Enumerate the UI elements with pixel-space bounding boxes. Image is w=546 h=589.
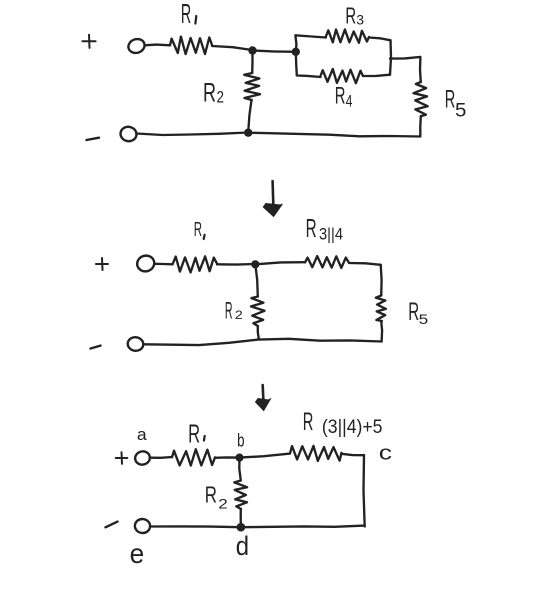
svg-text:2: 2 (217, 88, 225, 107)
label R3||4 (306, 213, 343, 244)
resistor R2 (middle circuit) (251, 297, 265, 327)
node junction at parallel box (top) (292, 48, 300, 56)
svg-text:R: R (205, 481, 217, 507)
node junction d (237, 523, 246, 532)
svg-text:R: R (188, 419, 200, 449)
terminal + input (bottom circuit) (134, 450, 151, 466)
resistor R3||4 (305, 256, 349, 268)
plus sign (bottom circuit input) (116, 452, 128, 464)
node label d (236, 531, 249, 561)
label R2 (bottom) (205, 481, 228, 511)
label R(3||4)+5 (303, 408, 383, 438)
label R4 (335, 83, 353, 111)
wire (364, 455, 365, 526)
svg-text:2: 2 (235, 308, 243, 322)
wire (150, 525, 241, 528)
svg-text:R: R (303, 408, 314, 436)
svg-text:R: R (408, 298, 419, 326)
wire (248, 133, 420, 137)
wire (419, 116, 422, 137)
wire (239, 458, 241, 481)
wire (258, 326, 259, 339)
label R1 (top) (181, 0, 196, 29)
wire (253, 51, 296, 52)
wire (240, 454, 291, 458)
resistor R1 (middle circuit) (173, 256, 218, 272)
minus sign (top circuit input) (87, 138, 100, 140)
wire (240, 509, 243, 527)
node junction R2 bottom (top) (244, 129, 252, 137)
terminal - input (bottom circuit) (134, 518, 151, 534)
wire (255, 264, 257, 296)
svg-text:R: R (345, 3, 356, 29)
wire (390, 40, 391, 74)
svg-text:b: b (237, 430, 244, 450)
svg-text:R: R (335, 83, 346, 110)
wire (390, 57, 421, 82)
label R2 (top) (203, 78, 224, 108)
resistor R1 (bottom circuit) (172, 449, 215, 465)
wire (380, 321, 383, 342)
label R5 (top) (445, 86, 467, 122)
svg-text:R: R (445, 86, 456, 114)
svg-text:a: a (137, 425, 147, 444)
wire (255, 262, 305, 264)
wire (380, 265, 383, 296)
wire (251, 51, 254, 74)
terminal - input (top circuit) (119, 126, 137, 143)
svg-text:2: 2 (218, 496, 228, 512)
resistor R5 (top circuit) (414, 82, 428, 116)
wire (296, 52, 321, 77)
wire (241, 526, 365, 528)
wire (369, 38, 391, 41)
wire (248, 100, 251, 133)
wire (212, 46, 252, 50)
label R1 (bottom) (188, 419, 205, 449)
svg-text:R: R (225, 298, 233, 325)
label R5 (middle) (408, 298, 428, 327)
svg-text:e: e (130, 538, 145, 569)
svg-text:(3||4)+5: (3||4)+5 (322, 417, 383, 438)
node label a (137, 425, 147, 444)
svg-text:3: 3 (356, 12, 364, 27)
plus sign (middle circuit input) (96, 258, 108, 270)
arrow between circuit 1 and 2 (263, 181, 282, 217)
plus sign (top circuit input) (82, 35, 95, 48)
resistor R2 (bottom circuit) (234, 481, 247, 510)
svg-text:3||4: 3||4 (319, 225, 343, 244)
svg-text:R: R (194, 219, 202, 241)
svg-text:5: 5 (455, 100, 466, 121)
svg-text:5: 5 (419, 311, 429, 327)
svg-text:c: c (379, 443, 392, 465)
wire (349, 263, 381, 265)
label R1 (middle) (194, 219, 205, 241)
wire (154, 263, 172, 266)
label R3 (345, 3, 364, 29)
wire (342, 454, 365, 455)
wire (145, 43, 171, 46)
terminal + input (middle circuit) (135, 254, 156, 274)
minus sign (bottom circuit input) (106, 522, 118, 528)
resistor R3 (326, 30, 369, 43)
wire (217, 263, 255, 266)
wire (295, 35, 326, 52)
arrow between circuit 2 and 3 (256, 385, 271, 411)
wire (215, 456, 239, 459)
resistor R5 (middle circuit) (376, 296, 386, 322)
terminal - input (middle circuit) (127, 336, 144, 352)
node label e (130, 538, 145, 569)
svg-text:4: 4 (346, 91, 353, 110)
node label c (379, 443, 392, 465)
minus sign (middle circuit input) (91, 346, 101, 349)
node junction R1-R2 (top) (248, 46, 256, 54)
wire (363, 75, 390, 76)
resistor R4 (321, 69, 364, 83)
svg-text:R: R (306, 213, 317, 243)
node junction R1-R2 (middle) (251, 260, 259, 268)
svg-text:R: R (203, 78, 216, 108)
resistor R(3||4)+5 (290, 446, 342, 461)
svg-text:R: R (181, 0, 191, 29)
svg-text:d: d (236, 531, 249, 561)
resistor R2 (top circuit) (244, 73, 260, 100)
terminal + input (top circuit) (127, 37, 147, 55)
wire (136, 133, 248, 136)
resistor R1 (top circuit) (170, 37, 212, 55)
wire (150, 456, 172, 459)
node junction b (235, 454, 243, 462)
node label b (237, 430, 244, 450)
label R2 (middle) (225, 298, 243, 325)
wire (143, 339, 381, 345)
